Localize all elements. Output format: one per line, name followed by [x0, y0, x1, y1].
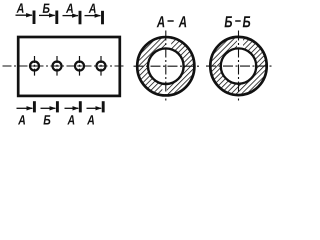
cut mark top 2: arrow: [39, 14, 55, 16]
section B-B: label: [225, 16, 233, 27]
hole 3: [75, 62, 84, 71]
hole 1: [30, 62, 39, 71]
cut mark bottom 4: label A: [87, 115, 94, 124]
cut mark top 4: thick stroke: [101, 11, 104, 24]
hole 2 vertical centerline: [56, 56, 58, 76]
cut mark top 2: label Б: [43, 4, 50, 13]
hole 1 vertical centerline: [34, 56, 36, 76]
axis: horizontal centerline of front view: [3, 65, 127, 67]
cut mark top 4: label A: [89, 4, 96, 13]
section B-B: hatched annulus: [210, 37, 266, 95]
hole 3 vertical centerline: [79, 56, 81, 76]
section A-A: vertical centerline: [165, 31, 167, 101]
section B-B: vertical centerline: [238, 31, 240, 101]
hole 4 vertical centerline: [100, 56, 102, 76]
cut mark bottom 3: arrow: [65, 107, 79, 109]
section A-A: hole gap bottom: [162, 83, 167, 99]
cut mark bottom 4: thick stroke: [102, 101, 105, 112]
section A-A: horizontal centerline: [134, 65, 200, 67]
cut mark bottom 2: thick stroke: [56, 101, 59, 112]
section A-A: inner circle: [148, 48, 184, 84]
front view: body rectangle: [18, 37, 120, 96]
section B-B: inner circle: [221, 48, 256, 83]
section A-A: outer circle: [137, 37, 194, 95]
cut mark bottom 3: thick stroke: [79, 101, 82, 112]
cut mark bottom 1: thick stroke: [33, 101, 36, 112]
hole 2: [53, 62, 62, 71]
cut mark bottom 1: label A: [18, 115, 25, 124]
section B-B: horizontal centerline: [206, 65, 272, 67]
section B-B: hole gap top: [237, 34, 243, 50]
cut mark bottom 4: arrow: [87, 107, 102, 109]
section A-A: hatched annulus: [137, 37, 194, 95]
cut mark top 1: arrow: [16, 14, 33, 16]
cut mark top 3: label A: [66, 4, 73, 13]
section B-B: outer circle: [210, 37, 266, 95]
cut mark top 3: thick stroke: [79, 11, 82, 24]
hole 4: [97, 62, 106, 71]
cut mark bottom 3: label A: [67, 115, 74, 124]
cut mark top 2: thick stroke: [55, 11, 58, 25]
section A-A: label: [157, 16, 165, 27]
section A-A: hole gap top: [166, 33, 171, 50]
cut mark top 4: arrow: [85, 15, 101, 17]
cut mark top 1: thick stroke: [33, 11, 36, 25]
cut mark bottom 1: arrow: [17, 107, 33, 109]
cut mark top 3: arrow: [63, 15, 79, 17]
cut mark bottom 2: arrow: [41, 107, 56, 109]
cut mark bottom 2: label Б: [43, 115, 50, 124]
center dashes in holes: [32, 65, 36, 67]
cut mark top 1: label A: [16, 3, 23, 12]
